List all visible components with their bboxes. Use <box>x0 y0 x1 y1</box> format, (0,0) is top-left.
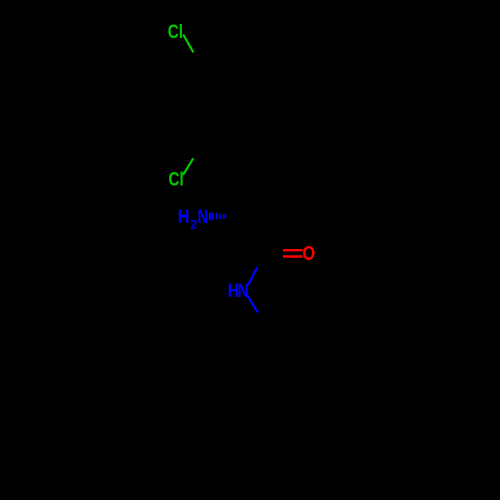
svg-text:2: 2 <box>190 218 197 232</box>
bond N-C(=O) (blue half) <box>248 267 257 285</box>
svg-text:O: O <box>303 242 316 264</box>
bond C-Cl (lower, green half) <box>183 158 193 175</box>
bond C-Cl (top, green half) <box>183 35 193 53</box>
double bond C=O (red halves) <box>283 249 303 251</box>
bond N-CH2 (blue half) <box>247 296 257 313</box>
svg-text:N: N <box>198 206 209 227</box>
svg-text:N: N <box>238 279 249 301</box>
svg-text:H: H <box>178 206 190 227</box>
svg-text:Cl: Cl <box>168 20 183 42</box>
hashed wedge bond N-C (blue dashes) <box>209 213 211 220</box>
svg-text:Cl: Cl <box>169 168 184 190</box>
